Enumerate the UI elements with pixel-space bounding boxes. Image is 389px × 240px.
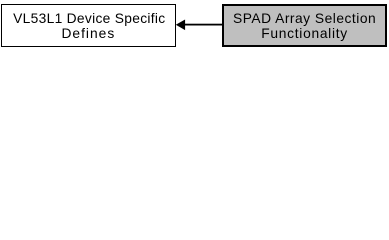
- label line 1: SPAD Array Selection: [224, 11, 386, 26]
- label line 2: Defines: [2, 26, 175, 41]
- wire: horizontal edge shaft: [185, 24, 224, 26]
- label line 2: Functionality: [224, 26, 386, 41]
- edge from grey node to left node: [0, 0, 389, 51]
- arrowhead pointing left at VL53L1 box: [176, 20, 185, 31]
- label line 1: VL53L1 Device Specific: [3, 11, 176, 26]
- node box (current, grey): SPAD Array Selection Functionality: [222, 4, 388, 48]
- node box: VL53L1 Device Specific Defines: [1, 4, 176, 47]
